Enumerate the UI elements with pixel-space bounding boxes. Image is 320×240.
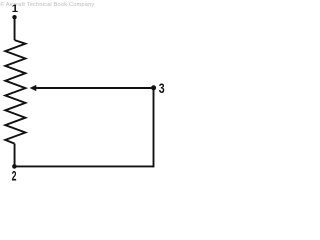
wire: right vertical, bottom-right corner to node 3 [153,88,155,167]
potentiometer resistive element (zigzag) [5,40,25,144]
node 1 (junction dot, top terminal) [12,15,16,19]
wiper arrow (arrowhead pointing at resistor) [30,85,37,91]
svg-text:3: 3 [159,81,165,97]
wire: node 1 to resistor top [14,17,16,40]
node 3 (junction dot, wiper terminal) [151,85,156,90]
wire: resistor bottom to node 2 [14,144,16,167]
svg-text:1: 1 [12,3,18,15]
wire: bottom horizontal, node 2 to bottom-right corner [14,165,153,167]
node 2 (junction dot, bottom terminal) [12,164,17,169]
wire: wiper horizontal, node 3 to arrow [36,87,154,89]
svg-text:2: 2 [12,169,17,184]
